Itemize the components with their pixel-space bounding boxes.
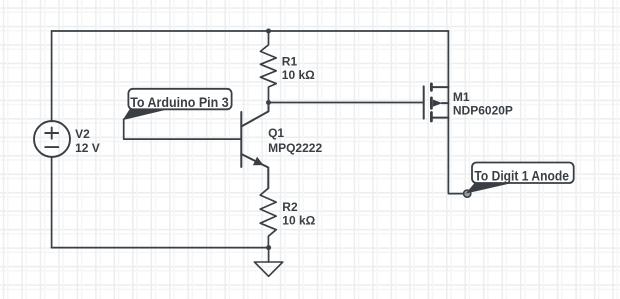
transistor M1 arrow — [433, 100, 443, 107]
wire top rail — [52, 30, 449, 32]
flag pointer (Digit anode) — [467, 182, 511, 193]
resistor R1 — [260, 31, 276, 103]
junction node R2 bottom / ground — [266, 245, 271, 250]
wire gate net (R1 bottom to M1 gate) — [269, 102, 424, 104]
voltage source V2 — [34, 121, 70, 157]
transistor Q1 emitter arrow — [253, 157, 264, 166]
transistor Q1 — [241, 103, 268, 189]
flag pointer (Arduino) — [124, 109, 166, 120]
svg-text:R1: R1 — [282, 55, 298, 69]
terminal pin (to digit anode) — [464, 190, 471, 197]
wire right rail (M1 drain to corner) — [448, 31, 463, 194]
svg-text:To Arduino Pin 3: To Arduino Pin 3 — [130, 95, 229, 110]
junction node R1 bottom / Q1 collector — [266, 100, 271, 105]
svg-text:V2: V2 — [75, 127, 90, 141]
wire left rail lower — [51, 157, 53, 248]
net flag To Digit 1 Anode — [472, 163, 574, 184]
svg-text:To Digit 1 Anode: To Digit 1 Anode — [474, 169, 569, 184]
svg-text:R2: R2 — [282, 200, 298, 214]
svg-text:12 V: 12 V — [75, 141, 100, 155]
transistor M1 (PMOS) — [424, 84, 449, 121]
svg-text:Q1: Q1 — [268, 126, 284, 140]
wire bottom rail — [52, 247, 269, 249]
svg-text:M1: M1 — [453, 90, 470, 104]
svg-text:10 kΩ: 10 kΩ — [282, 68, 315, 82]
wire base net (flag to Q1 base) — [124, 119, 242, 139]
net flag To Arduino Pin 3 — [128, 89, 231, 110]
svg-text:NDP6020P: NDP6020P — [453, 104, 513, 118]
resistor R2 — [260, 188, 276, 247]
wire left rail upper — [51, 31, 53, 121]
ground — [254, 262, 282, 276]
junction node R1 top — [266, 29, 271, 34]
svg-text:10 kΩ: 10 kΩ — [282, 214, 315, 228]
svg-text:MPQ2222: MPQ2222 — [268, 141, 322, 155]
wire ground stub — [268, 248, 270, 262]
